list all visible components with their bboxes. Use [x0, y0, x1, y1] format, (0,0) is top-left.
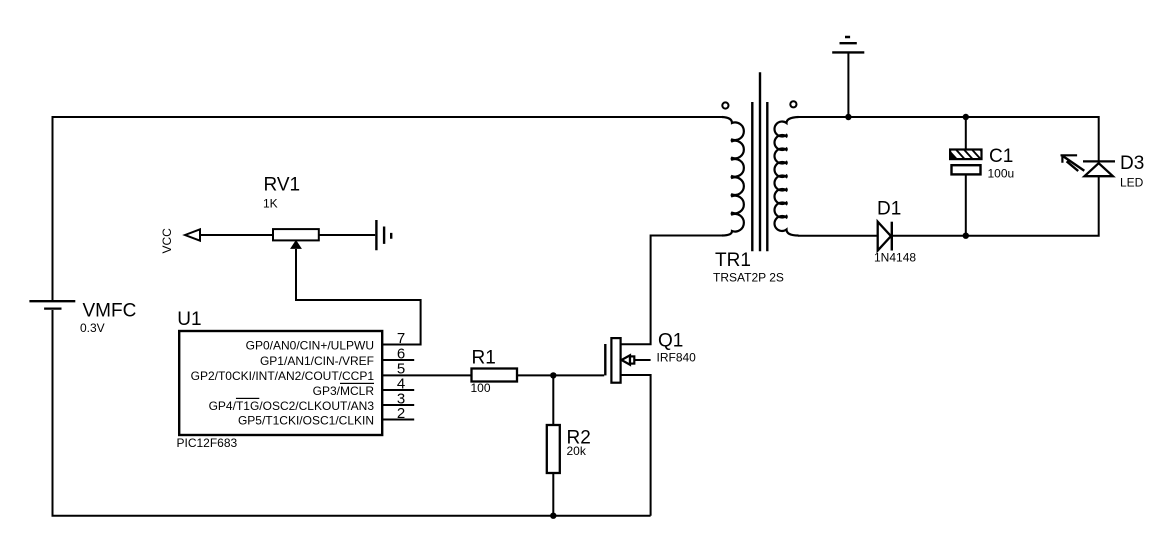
svg-text:100u: 100u: [988, 167, 1015, 181]
svg-text:GP3/MCLR: GP3/MCLR: [313, 384, 375, 398]
svg-text:GP5/T1CKI/OSC1/CLKIN: GP5/T1CKI/OSC1/CLKIN: [238, 413, 374, 427]
svg-text:U1: U1: [177, 309, 201, 330]
svg-text:PIC12F683: PIC12F683: [177, 436, 238, 450]
svg-text:0.3V: 0.3V: [80, 321, 105, 335]
svg-text:2: 2: [397, 405, 405, 422]
svg-text:IRF840: IRF840: [657, 351, 697, 365]
svg-text:1N4148: 1N4148: [874, 251, 916, 265]
svg-text:VCC: VCC: [160, 228, 174, 254]
svg-text:1K: 1K: [263, 197, 278, 211]
svg-text:VMFC: VMFC: [83, 301, 137, 322]
svg-text:GP4/T1G/OSC2/CLKOUT/AN3: GP4/T1G/OSC2/CLKOUT/AN3: [209, 399, 375, 413]
svg-text:TRSAT2P 2S: TRSAT2P 2S: [713, 271, 784, 285]
svg-text:20k: 20k: [567, 444, 587, 458]
svg-text:TR1: TR1: [715, 250, 751, 271]
svg-text:7: 7: [397, 330, 405, 347]
svg-text:100: 100: [471, 381, 491, 395]
svg-text:GP1/AN1/CIN-/VREF: GP1/AN1/CIN-/VREF: [260, 354, 374, 368]
svg-text:LED: LED: [1120, 176, 1144, 190]
svg-text:RV1: RV1: [264, 175, 301, 196]
svg-text:R1: R1: [472, 348, 496, 369]
svg-text:C1: C1: [989, 146, 1013, 167]
svg-text:GP0/AN0/CIN+/ULPWU: GP0/AN0/CIN+/ULPWU: [246, 338, 374, 352]
svg-text:GP2/T0CKI/INT/AN2/COUT/CCP1: GP2/T0CKI/INT/AN2/COUT/CCP1: [191, 369, 375, 383]
svg-text:Q1: Q1: [658, 331, 683, 352]
svg-text:D1: D1: [877, 199, 901, 220]
svg-text:D3: D3: [1120, 153, 1144, 174]
